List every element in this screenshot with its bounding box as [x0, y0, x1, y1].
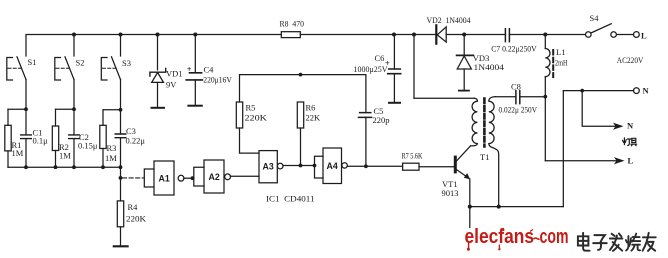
wire R2 bottom lead [55, 151, 57, 168]
wire C4 bottom lead [194, 80, 196, 105]
svg-text:220K: 220K [245, 113, 269, 123]
svg-text:L: L [641, 31, 647, 41]
wire C8 left lead to secondary top [496, 96, 516, 98]
wire C8 right lead to L1 node [520, 96, 546, 98]
switch S4 blade [591, 24, 611, 33]
gate A3 body [259, 151, 277, 183]
transistor VT1 collector lead [457, 146, 471, 161]
wire rail from VD2 to C7 [446, 34, 505, 36]
wire oscillator RC node line R5-R6-C5 [240, 75, 366, 113]
gate A1 input tie bracket [144, 169, 154, 187]
arrowhead lamp L output [614, 157, 625, 164]
wire C3 lower lead [120, 138, 122, 168]
wire S3 bottom lead down through C3 junction [120, 80, 122, 110]
watermark 友 (drawn) [643, 233, 656, 251]
wire C5 bottom lead to A4 output net [365, 117, 367, 166]
pushbutton S3 blade [112, 57, 121, 80]
svg-text:com: com [540, 225, 569, 248]
svg-text:R4: R4 [128, 202, 139, 212]
zener diode VD1 top lead [157, 35, 159, 70]
svg-text:R6: R6 [306, 103, 316, 113]
wire C2 upper lead [73, 109, 75, 135]
svg-text:1M: 1M [12, 148, 24, 158]
wire S1 bottom lead down to cell line [25, 80, 27, 110]
switch S4 right contact [611, 32, 617, 38]
svg-text:VD2 1N4004: VD2 1N4004 [427, 15, 472, 25]
wire A3 output to A4 input [283, 165, 315, 167]
wire A1 output to A2 input [184, 177, 194, 179]
capacitor C2 plates [69, 135, 80, 139]
wire C1 upper lead [25, 109, 27, 135]
svg-text:R5: R5 [246, 103, 256, 113]
gate A1 output bubble [178, 175, 184, 181]
svg-text:A1: A1 [159, 174, 170, 184]
svg-text:S3: S3 [122, 58, 131, 68]
capacitor C4 plates [186, 73, 202, 80]
ground bar below C4 [188, 105, 201, 107]
wire rail from C7 to S4 [509, 34, 585, 36]
junction dots on top rail [72, 33, 547, 37]
wire R2 top lead [55, 109, 57, 126]
transformer T1 core dashes [483, 99, 486, 147]
capacitor C3 plates [115, 134, 126, 138]
ground bar below VD1 [152, 107, 165, 109]
diode VD3 top lead [463, 35, 465, 56]
capacitor C6 top lead [393, 35, 395, 70]
svg-text:0.22μ: 0.22μ [126, 136, 146, 146]
svg-text:C3: C3 [126, 126, 136, 136]
wire top supply rail left segment with corner down to S1 [26, 35, 281, 57]
svg-text:1M: 1M [105, 153, 117, 163]
ground bar below R4 [114, 245, 128, 247]
watermark tilde dash between elecfans and com [534, 238, 540, 239]
svg-text:0.022μ 250V: 0.022μ 250V [499, 105, 538, 115]
wire bottom return net [470, 206, 564, 208]
pushbutton S1 actuator dashed link [8, 67, 21, 69]
svg-text:N: N [627, 120, 634, 130]
svg-text:R7 5.6K: R7 5.6K [402, 151, 424, 161]
pushbutton S3 button bracket [101, 58, 107, 81]
svg-text:S1: S1 [28, 57, 37, 67]
resistor R2 [52, 126, 58, 151]
svg-text:S2: S2 [76, 57, 85, 67]
pushbutton S2 button bracket [55, 58, 61, 81]
watermark elecfans red text [465, 225, 569, 248]
pushbutton S2 actuator dashed link [56, 67, 69, 69]
capacitor C5 plates [359, 113, 372, 118]
VD3 anode terminal bar [459, 90, 469, 92]
junction dots on cell lines and bottom rail [24, 107, 122, 180]
transistor VT1 base bar [454, 156, 457, 174]
svg-text:0.15μ: 0.15μ [78, 141, 98, 151]
terminal N input circle [634, 88, 640, 94]
wire R4 upper lead from bottom rail [120, 167, 122, 201]
wire S4 to L terminal [617, 34, 634, 36]
wire cell2 top line R2 to C2 node [56, 108, 75, 110]
wire R3 top lead [102, 110, 104, 126]
diode VD2 triangle [437, 27, 446, 42]
wire VD3 anode lead [463, 69, 465, 90]
gate A4 output bubble [342, 163, 347, 168]
svg-text:C4: C4 [204, 65, 215, 75]
resistor R8 [281, 32, 300, 38]
switch S4 left contact [586, 32, 592, 38]
arrowhead lamp N output [613, 123, 624, 130]
ground bar below C6 [389, 102, 400, 104]
watermark 烧 (drawn) [626, 234, 640, 251]
svg-text:R3: R3 [107, 143, 117, 153]
svg-text:A4: A4 [327, 161, 338, 171]
wire R3 bottom lead [102, 149, 104, 168]
transformer T1 primary winding [471, 98, 478, 146]
svg-text:N: N [643, 86, 650, 96]
inductor L1 top lead [544, 35, 546, 49]
svg-text:A3: A3 [263, 162, 274, 172]
wire emitter stub into watermark [469, 207, 471, 228]
wire right return riser to N line [562, 91, 564, 207]
wire cell1 top line R1 to C1 node [8, 108, 26, 110]
wire R6 bottom lead to A3 output net [300, 128, 302, 166]
lamp label 灯具 (drawn strokes) [623, 138, 637, 146]
gate A4 body [323, 148, 342, 184]
wire C1 lower lead [25, 139, 27, 168]
watermark 电 (drawn) [578, 233, 590, 251]
pushbutton S3 actuator dashed link [103, 67, 116, 69]
svg-text:1M: 1M [59, 151, 71, 161]
wire L1 bottom lead down to L output line [544, 77, 546, 161]
svg-text:220K: 220K [126, 214, 147, 224]
gate A1 body [154, 161, 174, 195]
wire C2 lower lead [73, 139, 75, 168]
wire R7 to VT1 base [419, 166, 454, 168]
capacitor C7 plates [505, 29, 509, 42]
svg-text:elecfans: elecfans [465, 225, 535, 248]
resistor R3 [100, 125, 106, 148]
wire vertical feed rail to transformer primary top [413, 35, 415, 99]
wire C6 bottom lead [393, 74, 395, 102]
diode VD2 cathode bar [435, 25, 437, 43]
wire VD1 anode lead [157, 82, 159, 107]
transistor VT1 emitter arrowhead [464, 173, 470, 179]
wire rail from R8 to VD2 [300, 34, 435, 36]
gate A3 output bubble [277, 163, 283, 169]
svg-text:0.1μ: 0.1μ [33, 136, 49, 146]
wire lamp L output line [545, 160, 617, 162]
svg-text:IC1 CD4011: IC1 CD4011 [266, 194, 315, 204]
pushbutton S1 top lead (part of rail corner), blade [17, 57, 26, 80]
svg-text:+: + [187, 64, 192, 74]
gate A4 input tie bracket [315, 156, 324, 178]
svg-text:T1: T1 [480, 152, 489, 162]
wire dashed input link to gate A1 [123, 177, 145, 179]
terminal L input circle [634, 32, 640, 38]
gate A2 output bubble [225, 174, 231, 180]
svg-text:VD1: VD1 [166, 68, 183, 78]
svg-text:R8 470: R8 470 [280, 18, 305, 28]
wire R1 top lead [7, 109, 9, 125]
inductor L1 coil [545, 49, 550, 77]
svg-text:C8: C8 [511, 82, 521, 92]
pushbutton S2 blade [65, 57, 74, 80]
wire A2 output to A3 input [231, 175, 260, 177]
watermark chinese characters group [578, 233, 656, 251]
wire A4 output to R7 [347, 165, 402, 167]
resistor R5 [236, 102, 242, 128]
svg-text:220p: 220p [373, 115, 390, 125]
svg-text:9013: 9013 [442, 188, 459, 198]
svg-text:220μ16V: 220μ16V [203, 74, 232, 84]
wire C3 upper lead [120, 110, 122, 134]
wire primary top horizontal [414, 97, 475, 99]
gate A2 input tie bracket [194, 167, 204, 186]
resistor R6 [297, 102, 303, 128]
svg-text:22K: 22K [306, 113, 322, 123]
junction dots gate and output nets [191, 73, 584, 209]
diode VD3 cathode bar [457, 54, 474, 56]
diode VD3 triangle [457, 56, 471, 69]
wire cell3 top line R3 to C3 node [103, 109, 121, 111]
pushbutton S1 button bracket [7, 58, 13, 81]
svg-text:9V: 9V [166, 80, 177, 90]
wire bottom rail of RC cells [8, 166, 121, 168]
watermark 发 (drawn) [610, 234, 623, 251]
inductor L1 core dashes [552, 50, 554, 77]
wire R5 bottom lead to A3 input [240, 128, 260, 153]
pushbutton S3 top lead [120, 35, 122, 57]
resistor R7 [403, 163, 419, 170]
zener diode VD1 triangle [152, 73, 164, 83]
svg-text:A2: A2 [209, 172, 220, 182]
wire R4 lower lead [120, 227, 122, 246]
capacitor C1 plates [21, 135, 32, 139]
resistor R4 [117, 201, 123, 227]
svg-text:C7 0.22μ250V: C7 0.22μ250V [491, 44, 537, 54]
capacitor C6 plates [388, 69, 401, 74]
gate A2 body [204, 160, 224, 193]
wire R1 bottom lead [7, 151, 9, 167]
svg-text:2mH: 2mH [555, 58, 568, 68]
transistor VT1 emitter lead with arrow [457, 170, 468, 178]
wire S2 bottom lead down to cell line [73, 80, 75, 110]
svg-text:L1: L1 [556, 47, 565, 57]
wire emitter down to bottom net [469, 179, 471, 207]
watermark red drip marks [467, 229, 533, 251]
wire N line to terminal [563, 90, 633, 92]
capacitor C4 top lead [194, 35, 196, 73]
svg-text:L: L [628, 156, 634, 166]
transformer T1 secondary winding [489, 97, 499, 207]
zener diode VD1 cathode bar [150, 68, 166, 76]
svg-text:1000μ25V: 1000μ25V [354, 64, 389, 74]
wire N branch down to lamp N arrow [582, 91, 616, 127]
watermark 子 (drawn) [593, 235, 607, 250]
svg-text:1N4004: 1N4004 [474, 62, 505, 72]
capacitor C8 plates [516, 91, 520, 104]
resistor R1 [5, 125, 11, 151]
svg-text:AC220V: AC220V [617, 55, 644, 65]
pushbutton S2 top lead [73, 35, 75, 57]
svg-text:S4: S4 [590, 13, 600, 23]
svg-text:C6: C6 [375, 53, 385, 63]
